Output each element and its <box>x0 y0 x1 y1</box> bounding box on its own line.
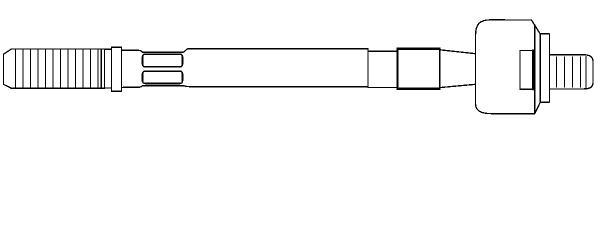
long shaft tube <box>189 49 368 87</box>
housing socket rim edge <box>532 51 534 90</box>
housing inner socket step <box>520 51 532 90</box>
threaded section body <box>11 49 105 88</box>
flange washer <box>540 34 549 102</box>
small collar section <box>368 51 398 87</box>
housing right face <box>534 25 536 114</box>
joint nut cylinder (thick outline) <box>398 49 440 89</box>
threaded stud <box>549 55 593 89</box>
stud thread lines <box>557 57 581 87</box>
threaded rod tip (left chamfered end) <box>4 49 12 88</box>
wrench flat groove (upper) <box>143 54 183 66</box>
collar ring after threads <box>105 47 122 91</box>
stud end chamfer line <box>585 57 587 88</box>
nut right face <box>439 49 441 89</box>
taper cone to housing <box>440 50 476 88</box>
ball joint housing body <box>476 20 541 114</box>
neck / wrench-flats silhouette <box>122 49 190 53</box>
thread crest lines <box>16 50 99 87</box>
wrench flat groove (lower) <box>143 71 183 83</box>
shaft end face <box>367 49 369 87</box>
